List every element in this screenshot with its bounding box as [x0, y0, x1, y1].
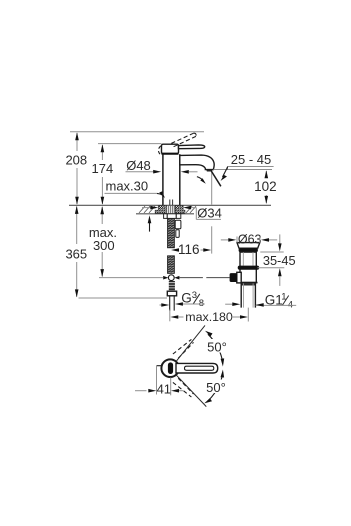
svg-text:Ø34: Ø34 [197, 205, 222, 220]
dim 116 [171, 242, 211, 257]
svg-text:300: 300 [93, 238, 115, 253]
hub (lever cross-section) [168, 362, 173, 374]
pop-up rod behind body bottom [169, 200, 171, 206]
label Ø63 [221, 233, 277, 247]
max.30 arrow to deck bottom [148, 215, 152, 231]
second hose stub [175, 220, 181, 229]
aerator [206, 170, 212, 172]
lever raised (dashed) [171, 133, 196, 147]
svg-text:35-45: 35-45 [263, 253, 296, 268]
supply tube end G3/8 [170, 296, 175, 311]
extension line cap top level [98, 143, 162, 145]
dim 174 [92, 144, 114, 204]
O-ring (black) [238, 266, 260, 270]
extension line 365 bottom [79, 297, 168, 299]
flange rim (black) [239, 248, 258, 252]
faucet base escutcheon (section) [155, 205, 166, 213]
faucet body [162, 154, 164, 205]
svg-text:Ø48: Ø48 [126, 158, 151, 173]
label 25-45 with leader [221, 152, 274, 181]
label 50 deg bottom [205, 380, 228, 394]
waste centerline extension [247, 308, 249, 322]
lever (horizontal) [179, 145, 205, 149]
threaded stub [169, 281, 175, 291]
dim max.180 [170, 310, 248, 325]
ray at -50 (lever centreline) [176, 375, 206, 407]
dim 208 [65, 132, 87, 204]
dashed lever at +50 [173, 339, 194, 358]
label G1 1/4 [225, 292, 296, 311]
deck bottom surface [136, 213, 194, 215]
dim 102 [254, 170, 277, 204]
dim max.300 [89, 206, 117, 277]
waste body [240, 252, 256, 283]
svg-text:max.180: max.180 [185, 310, 233, 324]
svg-text:116: 116 [178, 242, 200, 257]
dashed lever at -50 [173, 378, 194, 397]
extension line max.300 bottom / pop-up rod extended [99, 277, 163, 279]
label Ø48 [126, 158, 198, 174]
svg-text:174: 174 [92, 161, 114, 176]
svg-text:102: 102 [254, 179, 277, 194]
tailpipe G1 1/4 [241, 283, 255, 308]
hose nut [167, 291, 176, 296]
spout [180, 155, 214, 170]
svg-text:208: 208 [65, 152, 87, 167]
svg-text:365: 365 [65, 246, 87, 261]
svg-text:Ø63: Ø63 [238, 233, 262, 247]
deck top surface [69, 204, 271, 206]
label 50 deg top [206, 339, 229, 353]
svg-text:50°: 50° [207, 339, 227, 354]
swing arc bottom [207, 373, 223, 402]
extension line top (lever raised tip level) [70, 131, 204, 133]
pop-up rod junction [163, 275, 179, 281]
label G3/8 [160, 290, 205, 309]
swing arc top [208, 334, 223, 363]
lever top view [176, 363, 218, 373]
spout outlet extension line (below deck) [211, 226, 213, 253]
svg-text:50°: 50° [206, 380, 226, 395]
flexible supply hose (braided) [168, 219, 175, 248]
locknut below deck [164, 214, 181, 219]
stream swing curved arrow [197, 177, 203, 181]
faucet cap [162, 144, 179, 154]
spout outlet reference line [213, 169, 272, 171]
label Ø34 [142, 205, 222, 220]
body bottom edge [239, 282, 258, 284]
dim 35-45 [257, 234, 295, 286]
svg-text:25 - 45: 25 - 45 [231, 152, 271, 167]
pop-up rod horizontal [179, 277, 203, 279]
label max.30 with leader [105, 179, 165, 199]
pop-up rod connector block [237, 272, 241, 283]
pop-up waste: flange [237, 243, 260, 249]
handle circle (body top view) [161, 359, 179, 377]
svg-text:max.30: max.30 [106, 179, 149, 194]
svg-text:41: 41 [157, 382, 171, 397]
dim 41 [135, 366, 183, 397]
swing arc (dashed, left of cap) [158, 146, 160, 155]
dim 365 [65, 206, 87, 298]
ray at +50 (lever centreline) [176, 325, 205, 361]
deck hatching [139, 206, 196, 213]
pop-up rod knob [230, 273, 238, 282]
stream direction line [211, 171, 221, 186]
spout outlet extension line (above deck) [211, 172, 213, 205]
